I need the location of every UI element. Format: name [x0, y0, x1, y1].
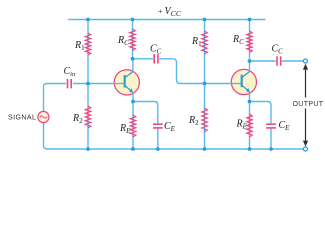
wire signal source to ground rail — [43, 123, 45, 126]
svg-text:OUTPUT: OUTPUT — [293, 101, 324, 108]
wire RE column stage 2 — [249, 102, 251, 150]
wire bottom ground rail — [44, 125, 304, 149]
svg-text:RE: RE — [119, 123, 131, 135]
wire emitter to CE stage 2 — [250, 102, 272, 124]
wire RE column stage 1 — [132, 102, 134, 150]
wire collector node to output cap CC stage 2 — [250, 60, 276, 62]
svg-text:R2: R2 — [188, 115, 199, 127]
node base Q2 — [203, 82, 207, 86]
output terminal bottom — [303, 147, 307, 151]
wire Q2 collector — [249, 61, 251, 72]
capacitor CC (stage 1) — [154, 54, 158, 63]
capacitor CE (stage 1) — [153, 124, 163, 128]
svg-text:CE: CE — [279, 120, 291, 132]
resistor RC (stage 1) — [130, 29, 136, 51]
wire base stage 1 — [73, 83, 125, 85]
resistor R1 (stage 2) — [202, 31, 208, 54]
resistor R2 (stage 1) — [85, 106, 91, 128]
resistor R2 (stage 2) — [202, 108, 208, 132]
node ground REa — [131, 147, 135, 151]
svg-text:+ VCC: + VCC — [158, 6, 182, 18]
node rail-R1b — [203, 18, 207, 22]
node emitter Q1 — [131, 100, 135, 104]
svg-text:RE: RE — [236, 119, 248, 131]
svg-text:R1: R1 — [74, 40, 85, 52]
output arrow line lower — [305, 109, 307, 142]
node rail-R1a — [86, 18, 90, 22]
signal source AC symbol — [38, 111, 49, 122]
wire R2 column stage 2 — [204, 84, 206, 150]
resistor R1 (stage 1) — [85, 33, 91, 55]
node rail-RCa — [131, 18, 135, 22]
svg-text:RC: RC — [232, 34, 244, 46]
output arrow line upper — [305, 68, 307, 98]
svg-text:CC: CC — [272, 44, 284, 56]
svg-text:RC: RC — [117, 35, 129, 47]
node emitter Q2 — [248, 100, 252, 104]
wire CE to ground stage 2 — [270, 129, 272, 149]
wire top +Vcc supply rail — [68, 19, 266, 21]
capacitor Cin — [68, 79, 72, 88]
transistor Q2 — [231, 69, 257, 94]
node collector Q1 — [131, 57, 135, 61]
wire CC stage 1 to stage 2 base — [159, 59, 242, 84]
wire CC stage 2 to output terminal — [282, 60, 303, 62]
resistor RE (stage 1) — [130, 115, 136, 137]
svg-text:R2: R2 — [72, 113, 83, 125]
wire collector node to coupling cap CC stage 1 — [133, 58, 154, 60]
wire signal input line to Cin — [44, 84, 67, 112]
wire RC column stage 2 — [249, 20, 251, 62]
node collector Q2 — [248, 59, 252, 63]
node rail-RCb — [248, 18, 252, 22]
wire CE to ground stage 1 — [157, 129, 159, 149]
wire emitter to CE stage 1 — [133, 102, 158, 124]
node ground R2b — [203, 147, 207, 151]
node ground R2a — [86, 147, 90, 151]
svg-text:Cin: Cin — [64, 66, 76, 78]
wire Q1 emitter — [132, 93, 134, 102]
wire Q2 emitter — [249, 93, 251, 102]
output terminal top — [303, 59, 307, 63]
output arrowhead up — [303, 64, 308, 70]
node base Q1 — [86, 82, 90, 86]
svg-text:CC: CC — [150, 44, 162, 56]
wire RC column stage 1 — [132, 20, 134, 59]
svg-text:R1: R1 — [191, 36, 202, 48]
node ground CEa — [156, 147, 160, 151]
capacitor CE (stage 2) — [266, 124, 276, 128]
wire Q1 collector — [132, 59, 134, 72]
output arrowhead down — [303, 141, 308, 147]
wire R1 column stage 1 — [87, 20, 89, 84]
transistor Q1 — [114, 70, 140, 95]
wire R1 column stage 2 — [204, 20, 206, 84]
node ground REb — [248, 147, 252, 151]
resistor RC (stage 2) — [247, 31, 253, 53]
wire R2 column stage 1 — [87, 84, 89, 150]
capacitor CC (stage 2) — [277, 56, 281, 65]
resistor RE (stage 2) — [247, 114, 253, 137]
node ground CEb — [269, 147, 273, 151]
svg-text:CE: CE — [164, 121, 176, 133]
svg-text:SIGNAL: SIGNAL — [8, 115, 36, 122]
